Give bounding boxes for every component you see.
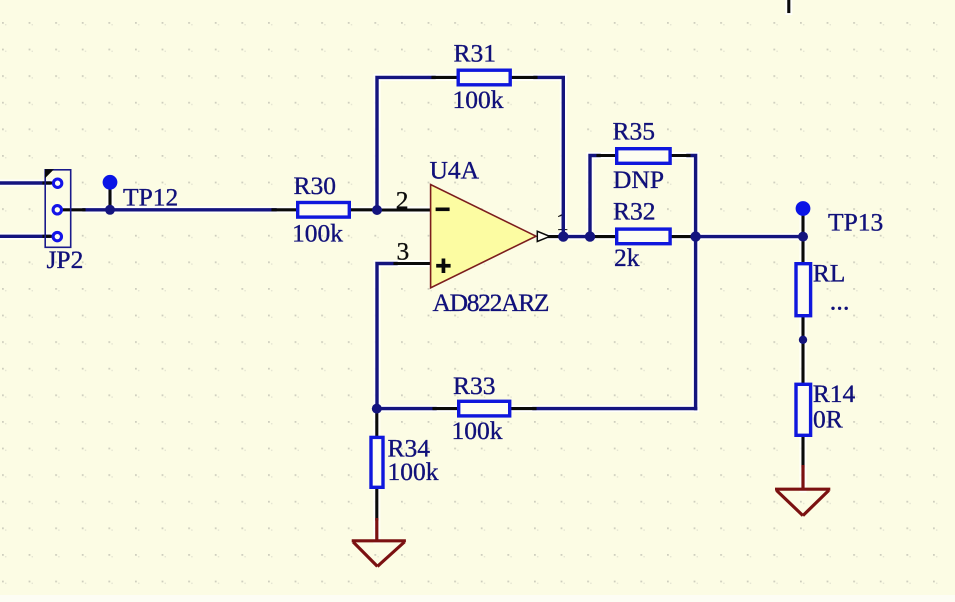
wire R35 right vertical <box>688 156 696 409</box>
node R33/R34 junction <box>372 404 382 414</box>
svg-text:JP2: JP2 <box>47 245 84 274</box>
plus input mark <box>436 264 450 268</box>
wire R31 left vertical <box>377 77 434 210</box>
node pin2/R31 junction <box>372 205 382 215</box>
pin circle 2 <box>53 206 61 214</box>
svg-text:100k: 100k <box>292 218 343 247</box>
ground under R14 <box>775 489 830 515</box>
wire R33 left <box>377 407 435 410</box>
wire to JP2 pin1 <box>0 181 49 184</box>
resistor R32 <box>613 197 670 273</box>
resistor R14 <box>796 379 856 436</box>
minus input mark <box>436 208 450 212</box>
svg-text:R32: R32 <box>613 197 656 226</box>
svg-text:R30: R30 <box>294 171 337 200</box>
ground under R34 <box>352 541 406 567</box>
svg-text:TP12: TP12 <box>123 182 178 211</box>
R34 leads <box>375 409 378 436</box>
wire pin3 vertical <box>377 264 396 409</box>
node output junction <box>558 231 568 241</box>
svg-text:AD822ARZ: AD822ARZ <box>433 288 549 317</box>
output marker <box>537 231 550 241</box>
node R35 left junction <box>585 231 595 241</box>
op-amp pin3 lead <box>395 262 431 265</box>
TP13 column leads <box>801 215 804 262</box>
wire R31 right vertical <box>535 77 563 236</box>
black pin leads <box>44 0 803 519</box>
top right stub <box>787 0 790 12</box>
pin circle 1 <box>53 179 61 187</box>
svg-text:2: 2 <box>396 185 409 214</box>
node TP13 junction <box>798 232 808 242</box>
wire R35 left vertical <box>590 156 599 237</box>
TP12 stem <box>108 188 111 210</box>
svg-text:DNP: DNP <box>613 165 664 194</box>
svg-text:R33: R33 <box>453 371 496 400</box>
connector JP2 <box>45 169 83 274</box>
wire R32 to TP13 <box>696 235 803 238</box>
op-amp output lead <box>549 235 563 238</box>
resistor RL <box>796 258 848 315</box>
wire R33 right <box>534 407 696 410</box>
svg-text:2k: 2k <box>614 243 640 272</box>
node R35 right junction <box>690 231 700 241</box>
white halos under wires <box>0 0 803 540</box>
svg-text:100k: 100k <box>453 85 504 114</box>
test point TP12 <box>103 175 179 211</box>
svg-text:RL: RL <box>813 258 846 287</box>
R31 leads <box>433 76 458 79</box>
node TP12 junction <box>105 205 115 215</box>
resistor R34 <box>371 434 439 488</box>
svg-text:100k: 100k <box>452 416 503 445</box>
op-amp U4A <box>396 156 550 317</box>
svg-text:R31: R31 <box>454 38 497 67</box>
node RL/R14 junction <box>799 336 807 344</box>
navy wires <box>0 77 803 408</box>
svg-text:TP13: TP13 <box>828 208 883 237</box>
R32 leads <box>592 235 616 238</box>
svg-text:0R: 0R <box>813 404 843 433</box>
R35 leads <box>598 154 616 157</box>
op-amp pin2 lead <box>377 208 431 211</box>
R30 leads <box>273 208 297 211</box>
svg-text:3: 3 <box>397 236 410 265</box>
resistor R35 <box>613 116 671 194</box>
R33 leads <box>434 407 458 410</box>
ground stem under R14 <box>801 465 804 489</box>
svg-text:100k: 100k <box>388 457 439 486</box>
svg-text:U4A: U4A <box>430 156 480 185</box>
wire output to R35 branch <box>563 235 593 238</box>
pin circle 3 <box>53 232 61 240</box>
JP2 pin leads <box>44 181 53 184</box>
resistor R30 <box>292 171 349 247</box>
corner notch <box>45 169 54 178</box>
resistor R33 <box>452 371 510 445</box>
test point TP13 <box>796 201 884 237</box>
wire JP2 pin2 to R30 <box>84 208 275 211</box>
svg-text:R35: R35 <box>613 116 656 145</box>
resistor R31 <box>453 38 511 114</box>
value dots ... <box>831 307 834 310</box>
ground stem under R34 <box>375 518 378 540</box>
wire to JP2 pin3 <box>0 235 49 238</box>
